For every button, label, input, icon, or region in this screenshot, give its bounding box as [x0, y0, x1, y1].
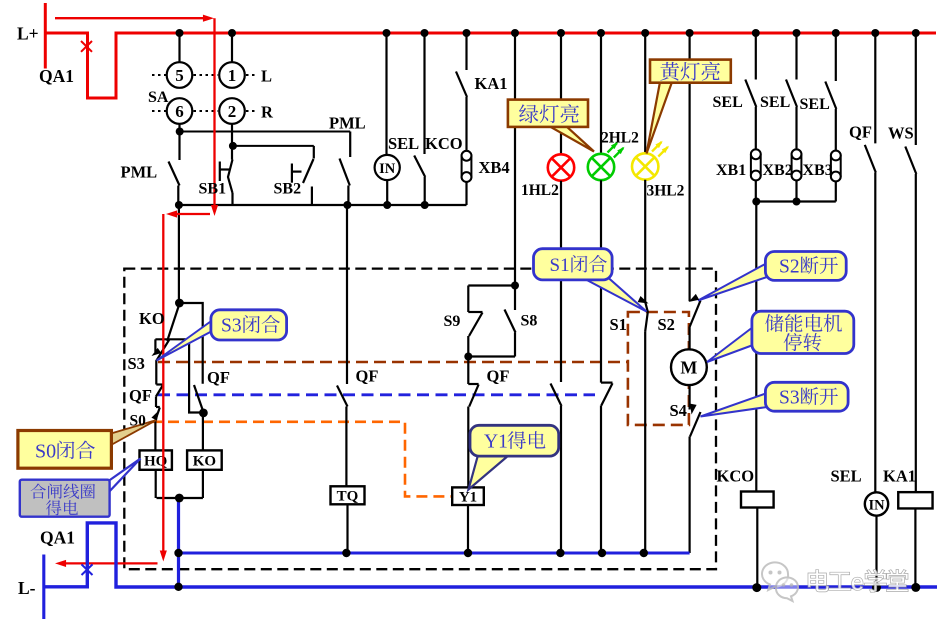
svg-text:QF: QF [129, 386, 152, 405]
svg-text:S0: S0 [130, 413, 147, 430]
svg-text:IN: IN [379, 161, 396, 177]
svg-text:SEL: SEL [760, 94, 790, 111]
svg-text:KO: KO [193, 454, 216, 470]
svg-text:QF: QF [207, 368, 230, 387]
svg-text:L: L [261, 67, 272, 86]
svg-text:WS: WS [888, 124, 914, 143]
svg-text:PML: PML [121, 163, 158, 182]
svg-text:QA1: QA1 [39, 66, 74, 86]
svg-text:KO: KO [139, 309, 165, 328]
svg-text:TQ: TQ [337, 489, 359, 505]
svg-text:2: 2 [228, 102, 237, 121]
svg-text:XB1: XB1 [716, 162, 746, 179]
svg-text:1HL2: 1HL2 [521, 182, 559, 199]
svg-text:2HL2: 2HL2 [601, 130, 639, 147]
svg-text:QF: QF [849, 123, 872, 142]
svg-text:5: 5 [175, 66, 184, 85]
svg-text:SEL: SEL [713, 94, 743, 111]
svg-text:e: e [851, 569, 864, 595]
svg-text:S8: S8 [521, 313, 538, 330]
svg-text:S1: S1 [610, 315, 627, 334]
svg-text:S1: S1 [550, 255, 570, 276]
svg-text:Y1: Y1 [484, 432, 508, 453]
svg-text:QF: QF [487, 367, 510, 386]
svg-text:SA: SA [148, 89, 169, 106]
svg-text:KCO: KCO [717, 467, 755, 486]
svg-text:3HL2: 3HL2 [647, 183, 685, 200]
svg-text:S3: S3 [779, 388, 800, 409]
svg-text:IN: IN [868, 498, 885, 514]
svg-text:XB3: XB3 [803, 162, 833, 179]
svg-text:SB1: SB1 [199, 181, 227, 198]
svg-text:PML: PML [329, 114, 366, 133]
svg-text:1: 1 [228, 66, 237, 85]
svg-text:L-: L- [18, 578, 36, 598]
svg-text:L+: L+ [17, 24, 39, 44]
svg-text:R: R [261, 103, 274, 122]
svg-text:SEL: SEL [831, 467, 862, 486]
svg-text:S2: S2 [658, 315, 675, 334]
svg-text:M: M [680, 358, 697, 378]
svg-text:S3: S3 [128, 354, 145, 373]
svg-text:XB2: XB2 [763, 162, 793, 179]
svg-text:KA1: KA1 [475, 74, 508, 93]
svg-text:S4: S4 [670, 401, 687, 420]
svg-text:SEL: SEL [388, 134, 419, 153]
svg-text:KCO: KCO [425, 134, 463, 153]
svg-text:S0: S0 [35, 441, 56, 463]
svg-text:KA1: KA1 [883, 467, 916, 486]
svg-text:Y1: Y1 [459, 490, 477, 506]
svg-text:S9: S9 [444, 313, 461, 330]
svg-text:S2: S2 [779, 257, 800, 278]
svg-text:SEL: SEL [800, 96, 830, 113]
svg-text:QF: QF [356, 367, 379, 386]
svg-text:XB4: XB4 [479, 158, 510, 177]
svg-text:SB2: SB2 [274, 181, 302, 198]
svg-text:QA1: QA1 [40, 528, 75, 548]
svg-text:S3: S3 [221, 316, 242, 337]
svg-text:6: 6 [175, 102, 184, 121]
